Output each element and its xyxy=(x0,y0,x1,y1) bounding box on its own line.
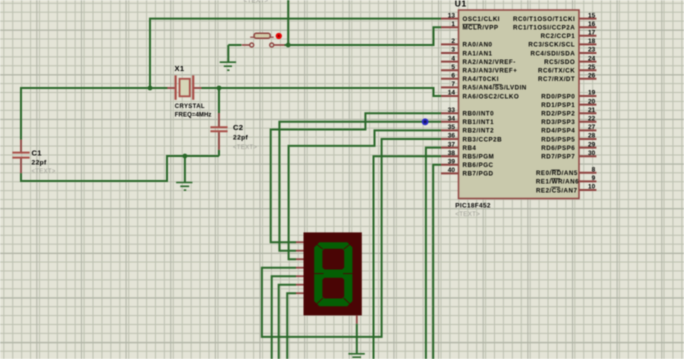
svg-text:25: 25 xyxy=(588,64,596,71)
svg-text:RB2/INT2: RB2/INT2 xyxy=(463,128,495,135)
svg-text:RB0/INT0: RB0/INT0 xyxy=(463,111,495,118)
svg-text:20: 20 xyxy=(588,98,596,105)
svg-text:22: 22 xyxy=(588,116,596,123)
svg-text:RD5/PSP5: RD5/PSP5 xyxy=(541,136,575,143)
svg-text:33: 33 xyxy=(448,107,456,114)
svg-text:17: 17 xyxy=(588,30,596,37)
svg-text:RB4: RB4 xyxy=(463,145,477,152)
svg-text:4: 4 xyxy=(451,55,455,62)
svg-text:RC3/SCK/SCL: RC3/SCK/SCL xyxy=(528,42,575,49)
svg-text:C2: C2 xyxy=(233,123,243,132)
svg-text:24: 24 xyxy=(588,55,596,62)
svg-text:RD3/PSP3: RD3/PSP3 xyxy=(541,119,575,126)
svg-text:<TEXT>: <TEXT> xyxy=(32,169,56,175)
svg-text:FREQ=4MHz: FREQ=4MHz xyxy=(175,112,212,118)
svg-text:35: 35 xyxy=(448,124,456,131)
svg-text:RE0/RD/AN5: RE0/RD/AN5 xyxy=(536,170,578,177)
svg-text:RC5/SDO: RC5/SDO xyxy=(544,59,575,66)
svg-text:8: 8 xyxy=(592,167,596,174)
svg-text:RB6/PGC: RB6/PGC xyxy=(463,162,494,169)
svg-text:13: 13 xyxy=(448,12,456,19)
svg-text:RC7/RX/DT: RC7/RX/DT xyxy=(538,76,575,83)
svg-text:<TEXT>: <TEXT> xyxy=(233,145,257,151)
svg-text:RC2/CCP1: RC2/CCP1 xyxy=(541,33,576,40)
svg-text:34: 34 xyxy=(448,116,456,123)
svg-text:38: 38 xyxy=(448,150,456,157)
svg-text:RE2/CS/AN7: RE2/CS/AN7 xyxy=(536,187,578,194)
svg-text:RC4/SDI/SDA: RC4/SDI/SDA xyxy=(530,50,575,57)
svg-text:U1: U1 xyxy=(455,0,467,8)
svg-text:RD6/PSP6: RD6/PSP6 xyxy=(541,145,575,152)
svg-text:<TEXT>: <TEXT> xyxy=(455,211,480,218)
svg-text:RD2/PSP2: RD2/PSP2 xyxy=(541,111,575,118)
svg-text:22pf: 22pf xyxy=(233,135,249,142)
svg-text:RE1/WR/AN6: RE1/WR/AN6 xyxy=(536,179,579,186)
svg-text:28: 28 xyxy=(588,133,596,140)
svg-text:RB7/PGD: RB7/PGD xyxy=(463,171,494,178)
svg-text:<TEXT>: <TEXT> xyxy=(244,0,269,5)
svg-text:18: 18 xyxy=(588,38,596,45)
svg-text:RC1/T1OSI/CCP2A: RC1/T1OSI/CCP2A xyxy=(513,25,575,32)
svg-text:RB1/INT1: RB1/INT1 xyxy=(463,119,495,126)
svg-text:PIC18F452: PIC18F452 xyxy=(455,202,491,209)
svg-text:RA3/AN3/VREF+: RA3/AN3/VREF+ xyxy=(463,68,518,75)
svg-text:27: 27 xyxy=(588,124,596,131)
svg-text:RD4/PSP4: RD4/PSP4 xyxy=(541,128,575,135)
svg-text:RA4/T0CKI: RA4/T0CKI xyxy=(463,76,499,83)
svg-text:21: 21 xyxy=(588,107,596,114)
svg-text:RC0/T1OSO/T1CKI: RC0/T1OSO/T1CKI xyxy=(513,16,575,23)
svg-text:7: 7 xyxy=(451,81,455,88)
svg-text:22pf: 22pf xyxy=(32,160,48,167)
svg-text:C1: C1 xyxy=(32,148,43,157)
svg-text:15: 15 xyxy=(588,12,596,19)
svg-text:40: 40 xyxy=(448,167,456,174)
svg-text:RD0/PSP0: RD0/PSP0 xyxy=(541,93,575,100)
svg-text:30: 30 xyxy=(588,150,596,157)
svg-text:MCLR/VPP: MCLR/VPP xyxy=(463,25,499,32)
svg-text:9: 9 xyxy=(592,175,596,182)
svg-text:29: 29 xyxy=(588,141,596,148)
svg-text:36: 36 xyxy=(448,133,456,140)
svg-text:2: 2 xyxy=(451,38,455,45)
svg-text:CRYSTAL: CRYSTAL xyxy=(175,104,205,110)
svg-text:X1: X1 xyxy=(175,64,185,73)
svg-text:10: 10 xyxy=(588,184,596,191)
svg-text:3: 3 xyxy=(451,47,455,54)
svg-text:1: 1 xyxy=(451,21,455,28)
svg-text:RD7/PSP7: RD7/PSP7 xyxy=(541,154,575,161)
svg-text:14: 14 xyxy=(448,90,456,97)
svg-text:19: 19 xyxy=(588,90,596,97)
svg-text:39: 39 xyxy=(448,159,456,166)
svg-text:23: 23 xyxy=(588,47,596,54)
svg-text:5: 5 xyxy=(451,64,455,71)
svg-text:37: 37 xyxy=(448,141,456,148)
svg-text:16: 16 xyxy=(588,21,596,28)
svg-text:26: 26 xyxy=(588,73,596,80)
svg-text:RA0/AN0: RA0/AN0 xyxy=(463,42,493,49)
svg-text:RB5/PGM: RB5/PGM xyxy=(463,154,495,161)
svg-text:RA1/AN1: RA1/AN1 xyxy=(463,50,493,57)
svg-text:RB3/CCP2B: RB3/CCP2B xyxy=(463,136,503,143)
svg-text:RA2/AN2/VREF-: RA2/AN2/VREF- xyxy=(463,59,516,66)
svg-text:RA5/AN4/SS/LVDIN: RA5/AN4/SS/LVDIN xyxy=(463,85,527,92)
svg-text:RC6/TX/CK: RC6/TX/CK xyxy=(538,68,575,75)
svg-text:6: 6 xyxy=(451,73,455,80)
svg-text:RD1/PSP1: RD1/PSP1 xyxy=(541,102,575,109)
svg-text:RA6/OSC2/CLKO: RA6/OSC2/CLKO xyxy=(463,93,520,100)
svg-text:OSC1/CLKI: OSC1/CLKI xyxy=(463,16,501,23)
